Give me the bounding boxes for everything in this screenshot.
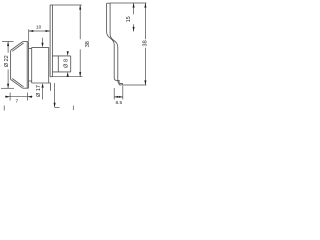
dim line 38 right upper (144, 3, 146, 39)
dim line 38 left upper (79, 5, 81, 39)
body top edge (32, 46, 49, 48)
svg-text:Ø 22: Ø 22 (4, 55, 10, 67)
svg-text:38: 38 (142, 40, 148, 46)
arrow 8.5 right (119, 96, 123, 98)
neck top edge (29, 47, 32, 49)
knob bottom chamfer inner line (12, 79, 23, 87)
shaft end cap (70, 56, 72, 72)
ext line cam bottom (122, 84, 146, 86)
arrow 38 right top (144, 3, 146, 8)
svg-text:Ø 17: Ø 17 (36, 85, 42, 97)
dim line D22 lower (7, 70, 9, 89)
arrow bottom leader (54, 103, 56, 108)
arrow D8 top (67, 51, 69, 56)
cam strip top cap (50, 4, 52, 6)
bottom tick right (72, 106, 74, 111)
ext line 7 right (26, 93, 28, 101)
bottom tick left (3, 106, 5, 111)
cam bottom cap (119, 84, 122, 86)
knob bottom edge (23, 87, 29, 89)
dim line 15 lower (133, 24, 135, 31)
dim line 10 (29, 30, 50, 32)
dim line 8.5 (114, 96, 123, 98)
ext line 8.5 left (113, 88, 115, 100)
body bottom edge (32, 82, 51, 84)
nut face line (57, 56, 59, 72)
shaft bottom edge (52, 71, 70, 73)
LEFT VIEW: quarter-turn lock, side elevation (11, 5, 71, 91)
svg-text:7: 7 (15, 99, 18, 105)
arrow D8 bottom (67, 72, 69, 77)
bottom leader vertical (54, 83, 56, 107)
arrow 38 left bottom (79, 72, 81, 77)
dim line D17 bottom leader (42, 87, 44, 99)
knob rear edge outer (26, 42, 28, 89)
body rear edge (48, 47, 50, 83)
svg-text:Ø 8: Ø 8 (63, 59, 69, 68)
arrow 7 right (27, 96, 32, 98)
arrow 38 right bottom (144, 80, 146, 85)
ext line 10 left (28, 29, 30, 41)
cam profile right contour (110, 3, 122, 85)
arrow 15 top (133, 3, 135, 8)
arrow D17 top (41, 43, 43, 48)
ext line knob bottom (1, 87, 14, 89)
dim line D22 upper (7, 42, 9, 53)
knob bottom chamfer (11, 79, 23, 88)
arrow 7 left (6, 96, 11, 98)
knob top chamfer (11, 42, 23, 51)
svg-text:38: 38 (85, 41, 91, 47)
dim line 15 upper (133, 3, 135, 14)
svg-text:8.5: 8.5 (115, 100, 122, 106)
knob front face (10, 50, 12, 79)
svg-text:15: 15 (126, 16, 132, 22)
cam strip hidden continuation below body (50, 83, 52, 91)
cam strip side view front line (49, 5, 51, 77)
ext line cam bottom left view (52, 76, 82, 78)
dim line 38 left lower (79, 49, 81, 76)
ext line cam top left view (52, 4, 81, 6)
dim line D17 top leader (42, 38, 44, 43)
dim line 38 right lower (144, 48, 146, 85)
dim line 7 (5, 96, 33, 98)
body front edge (31, 47, 33, 83)
arrow 10 left (29, 30, 34, 32)
knob rear edge inner (28, 42, 30, 89)
arrow D17 bottom (42, 83, 44, 88)
cam profile left contour (107, 3, 120, 85)
arrow D22 top (7, 42, 9, 47)
RIGHT VIEW: offset cam profile (107, 3, 123, 85)
arrow D22 bottom (7, 84, 9, 89)
knob top edge (23, 41, 29, 43)
shaft top edge (52, 55, 70, 57)
neck bottom edge (29, 80, 32, 82)
ext line knob top (2, 41, 14, 43)
arrow 10 right (46, 30, 51, 32)
arrow 8.5 left (114, 96, 118, 98)
ext line 7 left (9, 93, 11, 101)
svg-text:10: 10 (36, 25, 42, 31)
bottom leader foot (55, 106, 60, 108)
cam strip bottom cap (50, 76, 52, 78)
ext line 8.5 right (122, 86, 124, 100)
knob top chamfer inner line (12, 43, 23, 51)
cam top cap (107, 2, 111, 4)
arrow 38 left top (79, 5, 81, 10)
cam strip side view rear line (51, 5, 53, 77)
ext line cam top (110, 2, 146, 4)
arrow 15 bottom (133, 27, 135, 32)
